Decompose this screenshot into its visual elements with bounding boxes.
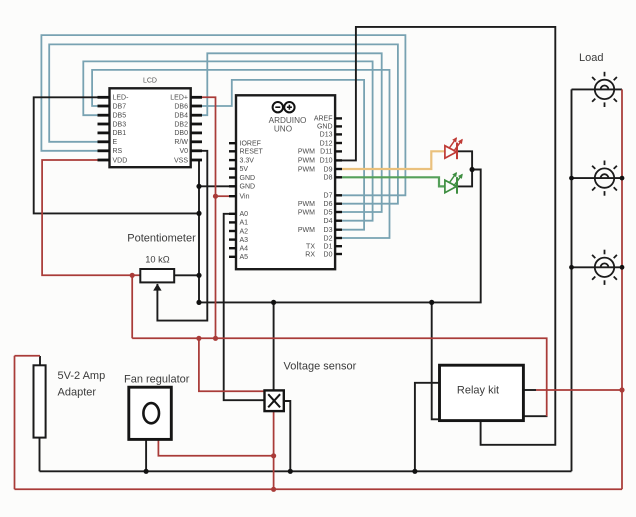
- svg-text:GND: GND: [240, 184, 256, 191]
- svg-text:DB6: DB6: [174, 103, 188, 110]
- wire RS to D7 (blue): [41, 35, 405, 195]
- wire red LED cathode: [457, 151, 472, 169]
- wire relay right-bottom stub to red drop: [523, 415, 547, 417]
- LCD left pin stubs: [98, 97, 110, 160]
- wire green LED cathode: [457, 170, 472, 187]
- LCD module body: [110, 88, 191, 167]
- Arduino right pin labels: [298, 116, 333, 259]
- svg-text:UNO: UNO: [274, 124, 292, 133]
- svg-text:PWM: PWM: [298, 201, 315, 208]
- svg-text:A0: A0: [240, 211, 249, 218]
- wire D8 to green LED anode (green): [342, 177, 444, 186]
- svg-text:DB4: DB4: [174, 113, 188, 120]
- svg-text:LED+: LED+: [170, 95, 188, 102]
- junction red bus / sensor feed: [196, 336, 201, 341]
- wire fan regulator bottom pin: [145, 440, 147, 471]
- svg-text:R/W: R/W: [174, 139, 188, 146]
- wire DB7 to D2 (blue): [92, 70, 389, 238]
- lamp L1: [592, 72, 617, 107]
- svg-text:IOREF: IOREF: [240, 141, 261, 148]
- fan regulator box: [129, 387, 172, 439]
- wire D10 to relay control via top: [342, 27, 555, 445]
- relay kit box: [440, 365, 524, 420]
- svg-text:D11: D11: [320, 149, 332, 156]
- svg-text:Potentiometer: Potentiometer: [127, 233, 196, 245]
- svg-text:D12: D12: [320, 140, 333, 147]
- svg-text:DB1: DB1: [113, 130, 127, 137]
- junction GND rail / Arduino GND: [196, 184, 201, 189]
- svg-text:AREF: AREF: [314, 116, 333, 123]
- wire lamp left rail: [571, 89, 573, 471]
- junction red bottom bus / sensor bottom: [271, 487, 276, 492]
- LCD right pin labels: [170, 95, 188, 165]
- wire pot junction down to red bus (red): [131, 275, 133, 338]
- junction lamp rail right row2: [620, 176, 625, 181]
- junction black bus / sensor output: [288, 469, 293, 474]
- junction red rail / relay feed: [619, 387, 624, 392]
- wire sensor top to ground line: [273, 302, 275, 390]
- svg-text:RESET: RESET: [240, 149, 264, 156]
- svg-text:D13: D13: [320, 132, 333, 139]
- wire adapter bottom to black bus: [39, 438, 41, 472]
- svg-text:TX: TX: [306, 244, 315, 251]
- svg-text:Voltage sensor: Voltage sensor: [284, 361, 357, 373]
- wire E to D6 (blue): [49, 44, 398, 203]
- Arduino right pin stubs: [335, 118, 342, 254]
- svg-text:DB5: DB5: [113, 113, 127, 120]
- wire Arduino Vin stub (red): [216, 195, 230, 197]
- svg-text:A4: A4: [240, 246, 249, 253]
- svg-text:PWM: PWM: [298, 149, 315, 156]
- junction GND rail / LED- line: [196, 211, 201, 216]
- wire LCD LED- to ground junction: [34, 97, 199, 213]
- svg-text:RX: RX: [305, 251, 315, 258]
- svg-text:Relay kit: Relay kit: [457, 385, 499, 397]
- svg-text:D9: D9: [324, 166, 333, 173]
- wire Arduino A0 to voltage sensor output: [224, 214, 265, 400]
- svg-text:Vin: Vin: [240, 194, 250, 201]
- potentiometer body 10 kOhm: [140, 269, 174, 282]
- wire red bottom bus: [15, 488, 623, 490]
- wire red right rail to lamps: [621, 89, 623, 489]
- junction fan red / sensor bottom: [271, 453, 276, 458]
- wire lamp row 2: [572, 177, 623, 179]
- wire red bus to voltage sensor left-top (red): [199, 338, 265, 391]
- wire adapter top feed (red): [15, 355, 41, 357]
- svg-text:VSS: VSS: [174, 157, 188, 164]
- wire DB5 to D4 (blue): [83, 61, 372, 220]
- junction red bus / Vin rail: [213, 336, 218, 341]
- wire DB6 to D3 (blue): [200, 80, 365, 230]
- lamp L2: [592, 161, 617, 196]
- LCD left pin labels: [113, 95, 130, 165]
- junction Vin red rail: [213, 194, 218, 199]
- junction lamp rail left row3: [569, 265, 574, 270]
- wire LCD LED+ / Arduino Vin rail (red): [200, 97, 216, 338]
- voltage sensor X mark: [268, 394, 280, 407]
- junction black bus / fan pin: [144, 469, 149, 474]
- junction GND rail / ground line: [196, 300, 201, 305]
- svg-text:GND: GND: [240, 175, 256, 182]
- svg-text:RS: RS: [113, 148, 123, 155]
- wire LCD VDD to potentiometer left (red): [42, 160, 140, 275]
- wire fan regulator red pin (red): [158, 440, 273, 456]
- svg-text:D2: D2: [324, 235, 333, 242]
- wire relay left-bottom to ground line: [432, 302, 440, 419]
- wire lamp row 3: [572, 266, 623, 268]
- wire D9 to red LED anode (orange): [342, 151, 444, 169]
- svg-text:V0: V0: [179, 148, 188, 155]
- svg-text:5V-2 Amp: 5V-2 Amp: [58, 370, 106, 382]
- svg-text:D10: D10: [320, 158, 333, 165]
- wire red power bus middle: [132, 338, 547, 416]
- svg-text:A3: A3: [240, 237, 249, 244]
- junction ground line / relay left-bottom: [429, 300, 434, 305]
- svg-text:Fan regulator: Fan regulator: [124, 374, 190, 386]
- svg-text:3.3V: 3.3V: [240, 157, 255, 164]
- Arduino logo: [273, 102, 295, 112]
- wire black ground bus bottom: [40, 470, 572, 472]
- svg-text:A2: A2: [240, 228, 249, 235]
- svg-text:D1: D1: [324, 244, 333, 251]
- wire DB4 to D5 (blue): [200, 53, 382, 212]
- svg-text:GND: GND: [317, 124, 333, 131]
- junction ground line / sensor top: [271, 300, 276, 305]
- wire lamp row 1: [572, 88, 623, 90]
- svg-text:PWM: PWM: [298, 227, 315, 234]
- svg-text:E: E: [113, 139, 118, 146]
- wire relay right-top stub: [523, 389, 536, 391]
- svg-text:D4: D4: [324, 218, 333, 225]
- svg-text:5V: 5V: [240, 166, 249, 173]
- svg-text:A1: A1: [240, 220, 249, 227]
- wire LCD V0 to pot wiper: [157, 151, 207, 321]
- svg-text:Load: Load: [579, 52, 603, 64]
- junction GND rail / pot right: [196, 273, 201, 278]
- wire sensor bottom to red bottom bus (red): [273, 411, 275, 489]
- svg-text:A5: A5: [240, 254, 249, 261]
- wire potentiometer right to ground rail: [174, 274, 199, 276]
- svg-text:PWM: PWM: [298, 209, 315, 216]
- svg-text:PWM: PWM: [298, 158, 315, 165]
- voltage sensor box: [265, 390, 284, 411]
- Arduino left pin labels: [240, 141, 264, 262]
- junction lamp rail left row2: [569, 176, 574, 181]
- wire sensor right output down to black bus: [284, 401, 291, 471]
- wire adapter top nub: [39, 356, 41, 365]
- wire Arduino GND to ground rail: [199, 185, 229, 187]
- red LED D1: [445, 138, 462, 159]
- svg-text:PWM: PWM: [298, 166, 315, 173]
- Arduino UNO body: [236, 95, 335, 269]
- svg-text:D7: D7: [324, 193, 333, 200]
- svg-text:LED-: LED-: [113, 95, 130, 102]
- wire ground rail to LED cathodes junction: [199, 170, 481, 303]
- svg-text:D3: D3: [324, 227, 333, 234]
- Arduino left pin stubs: [229, 143, 236, 257]
- svg-text:D0: D0: [324, 251, 333, 258]
- LCD right pin stubs: [191, 97, 202, 160]
- svg-text:D8: D8: [324, 175, 333, 182]
- junction lamp rail right row3: [620, 265, 625, 270]
- green LED D2: [445, 173, 462, 194]
- wire adapter left drop to red bus (red): [14, 356, 16, 490]
- fan regulator knob ellipse: [143, 403, 159, 423]
- svg-text:DB7: DB7: [113, 103, 127, 110]
- svg-text:D6: D6: [324, 201, 333, 208]
- svg-text:DB2: DB2: [174, 121, 188, 128]
- junction LED cathodes: [470, 167, 475, 172]
- junction red pot branch: [130, 273, 135, 278]
- junction black bus / relay left-top: [412, 469, 417, 474]
- wire LCD VSS down ground rail: [198, 160, 201, 302]
- potentiometer wiper arrow: [153, 284, 161, 291]
- svg-text:VDD: VDD: [113, 157, 128, 164]
- lamp L3: [592, 250, 617, 285]
- wire relay left-top to black bus: [415, 383, 440, 472]
- 5V-2 Amp adapter body: [34, 365, 46, 437]
- wire relay right to red rail (red): [536, 389, 622, 391]
- svg-text:Adapter: Adapter: [58, 387, 97, 399]
- svg-text:10 kΩ: 10 kΩ: [145, 255, 170, 265]
- svg-text:LCD: LCD: [143, 78, 157, 85]
- svg-text:DB0: DB0: [174, 130, 188, 137]
- svg-text:DB3: DB3: [113, 121, 127, 128]
- svg-text:D5: D5: [324, 209, 333, 216]
